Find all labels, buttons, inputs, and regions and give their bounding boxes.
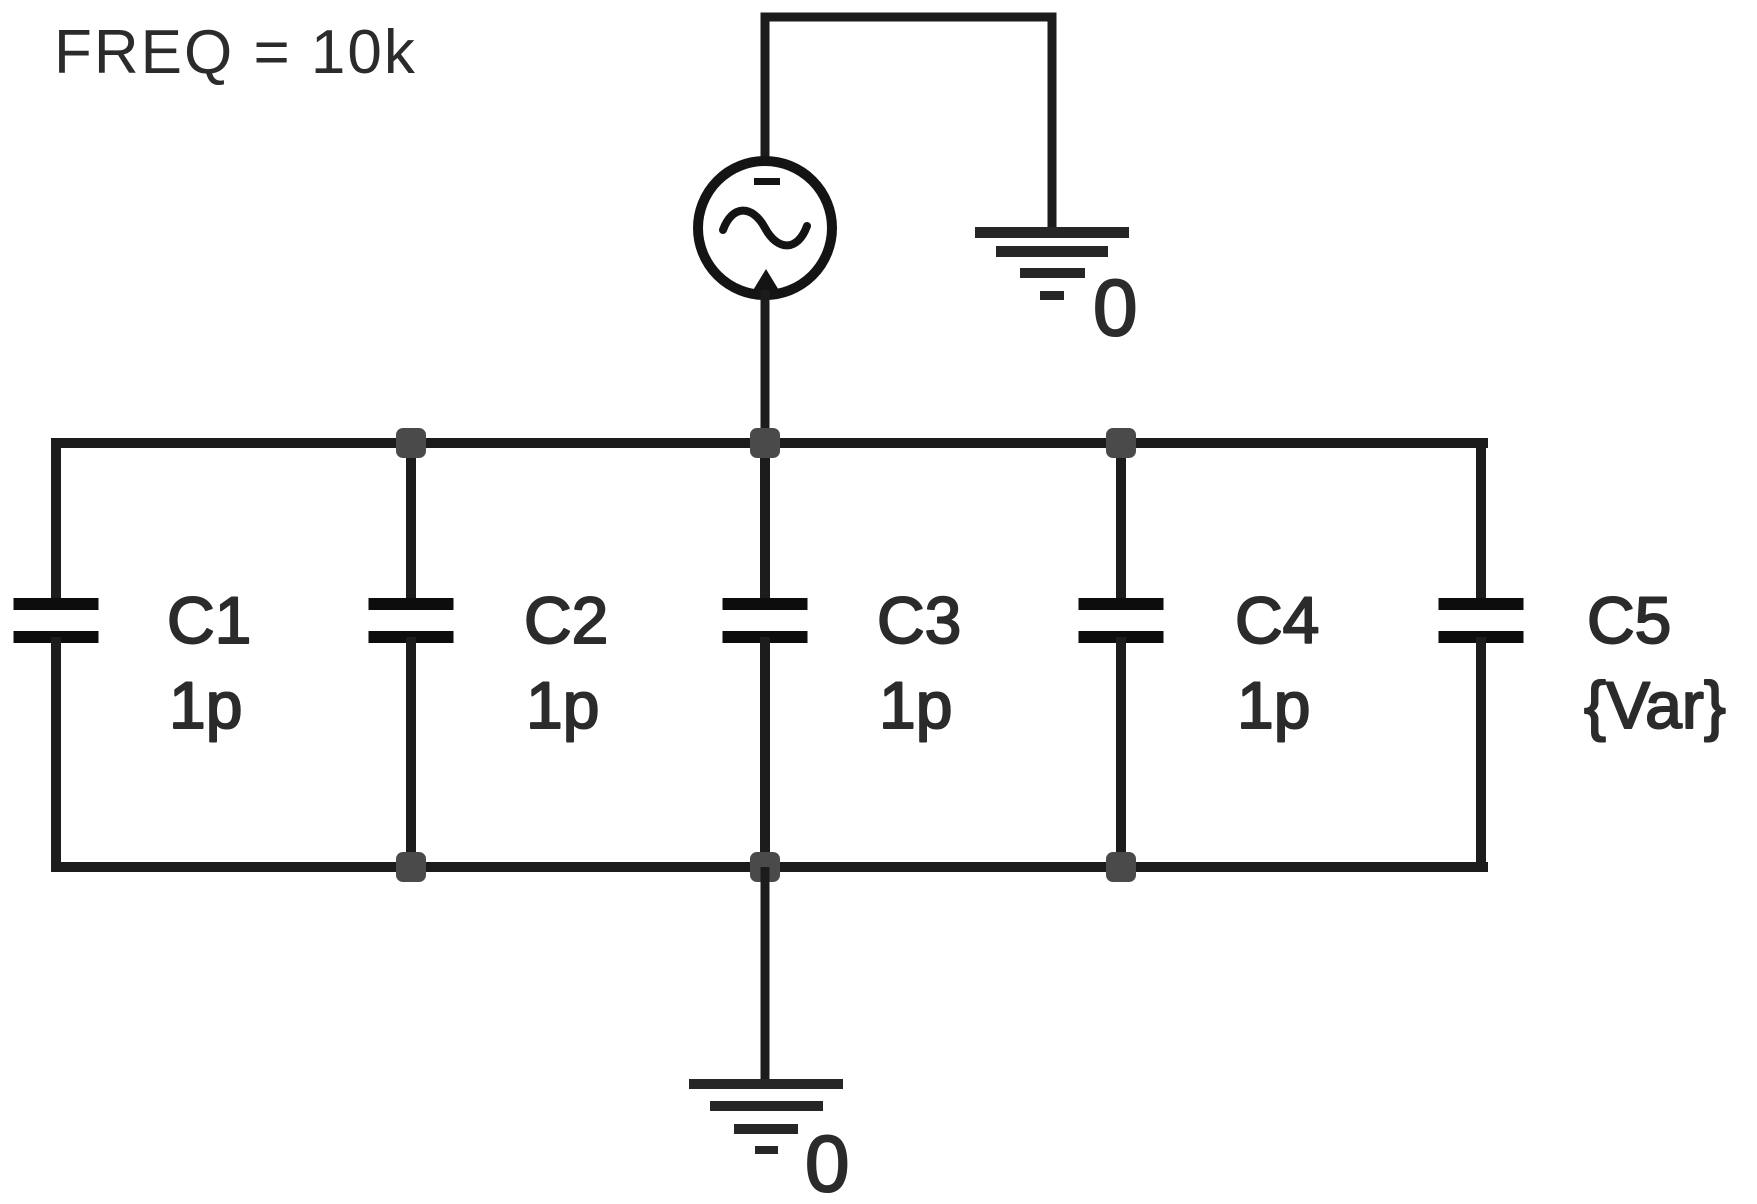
svg-text:1p: 1p — [1237, 668, 1310, 742]
capacitor C3 — [723, 443, 808, 867]
wire source bottom to top rail — [761, 290, 770, 443]
svg-text:0: 0 — [1093, 263, 1138, 352]
wire source top to ground (top loop) — [765, 17, 1052, 229]
svg-text:1p: 1p — [526, 668, 599, 742]
capacitor C4 — [1079, 443, 1164, 867]
ground GND bottom (0) — [689, 1079, 843, 1154]
junction top rail at C3 — [750, 428, 780, 458]
svg-text:0: 0 — [805, 1119, 850, 1204]
capacitor C1 — [14, 438, 99, 867]
wire bottom rail to ground — [761, 867, 770, 1082]
junction top rail at C2 — [396, 428, 426, 458]
junction top rail at C4 — [1106, 428, 1136, 458]
svg-text:C2: C2 — [524, 583, 608, 657]
svg-text:FREQ = 10k: FREQ = 10k — [54, 18, 417, 87]
capacitor C5 — [1439, 438, 1524, 867]
wire bottom rail — [51, 862, 1488, 872]
junction bottom rail at C4 — [1106, 852, 1136, 882]
junction bottom rail at C3 — [750, 852, 780, 882]
svg-text:1p: 1p — [169, 668, 242, 742]
svg-text:C5: C5 — [1587, 583, 1671, 657]
svg-text:C4: C4 — [1235, 583, 1319, 657]
voltage source V1 — [698, 161, 832, 295]
svg-text:{Var}: {Var} — [1584, 668, 1726, 742]
ground GND top (0) — [975, 227, 1129, 300]
capacitor C2 — [369, 443, 454, 867]
svg-text:C3: C3 — [877, 583, 961, 657]
wire top rail — [51, 438, 1488, 448]
svg-text:1p: 1p — [879, 668, 952, 742]
svg-text:C1: C1 — [167, 583, 251, 657]
junction bottom rail at C2 — [396, 852, 426, 882]
